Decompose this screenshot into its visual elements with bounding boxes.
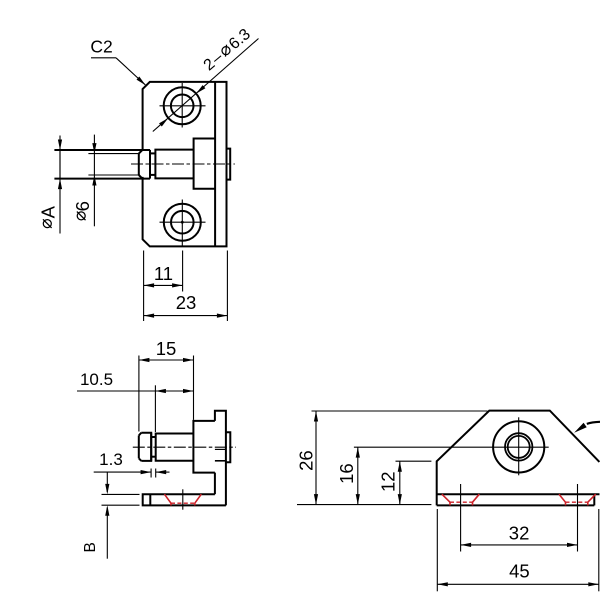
dimension 23 line (144, 315, 228, 317)
svg-text:12: 12 (377, 471, 398, 492)
dimension 15 line (139, 359, 194, 361)
front view: base top line (437, 493, 600, 495)
dimension diaA line (59, 136, 61, 234)
dimension 12 line (399, 461, 401, 504)
svg-text:C2: C2 (90, 37, 112, 57)
top view: rear tab (227, 149, 231, 180)
svg-text:A: A (37, 205, 58, 218)
side view: base plate (143, 494, 226, 505)
front view: base right end (593, 494, 595, 505)
label 2-dia6.3 text (201, 26, 254, 75)
front view: left countersink cone red (442, 494, 450, 502)
top view: mounting plate outline (143, 82, 227, 247)
dimension 23 extension line (226, 251, 228, 322)
label 2-dia6.3 arrows (196, 85, 205, 94)
front view: right countersink center line (577, 484, 579, 552)
top view: hole lower outer circle (164, 204, 201, 241)
dimension diaA text (37, 205, 58, 228)
side view: rear tab (226, 432, 230, 462)
dimension 10.5 extension line (154, 385, 156, 432)
dimension 1.3 line (94, 471, 151, 473)
side view: base inner edge (149, 494, 151, 505)
top view: thread root lines (88, 153, 138, 155)
front view: left countersink bore red (449, 502, 451, 505)
label 2-dia6.3 leader line (153, 39, 259, 132)
svg-text:23: 23 (176, 292, 197, 313)
side view: shaft center line (133, 446, 236, 448)
side view: countersink bottom red dashed (171, 502, 195, 504)
top view: lower hole crosshair (160, 221, 206, 223)
dimension 12 extension line (396, 460, 432, 462)
top view: piston shaft (155, 150, 193, 179)
svg-text:11: 11 (154, 263, 173, 284)
top view: plate inner edge line (214, 82, 216, 247)
dimension 11 extension lines (143, 251, 145, 322)
dimension B line (106, 472, 108, 492)
front view: hole inner circle (508, 436, 530, 458)
side view: boss block (193, 421, 215, 473)
side view: L-bracket flange outline (215, 411, 226, 506)
top view: hole lower inner circle (171, 211, 194, 234)
top view: upper hole crosshair (160, 105, 206, 107)
dimension 16 text (336, 463, 357, 484)
svg-text:1.3: 1.3 (99, 450, 123, 469)
front view: chamfer leader arrow (587, 422, 600, 424)
dimension dia6 text (72, 201, 93, 220)
dimension 45 line (437, 583, 599, 585)
dimension 26 text (296, 450, 317, 471)
svg-text:10.5: 10.5 (80, 370, 113, 389)
front view: right countersink cone red (559, 494, 566, 502)
side view: countersink center line (182, 489, 184, 509)
side view: shaft neck groove (151, 436, 156, 438)
dimension 16 line (357, 447, 359, 504)
front view: hole middle circle (505, 433, 532, 460)
front view: bracket body outline (437, 411, 600, 506)
top view: threaded rod crest lines (54, 149, 150, 151)
svg-text:26: 26 (296, 450, 317, 471)
side view: countersink bore red (170, 503, 172, 505)
top view: boss block (194, 139, 216, 189)
dimension 15 extension lines (138, 356, 140, 432)
dimension 11 line (144, 284, 183, 286)
front view: base bottom line (437, 504, 595, 506)
svg-text:45: 45 (509, 561, 530, 582)
top view: shaft neck groove (150, 152, 155, 154)
dimension B text (82, 542, 99, 552)
dimension 10.5 line (77, 390, 194, 392)
dimension 26 extension lines (312, 410, 488, 412)
dimension dia6 line (93, 135, 95, 227)
dimension 26 line (315, 411, 317, 505)
side view: flange left edge lower (214, 473, 216, 495)
side view: piston shaft (156, 434, 194, 461)
dimension 32 line (461, 544, 578, 546)
svg-text:32: 32 (509, 523, 530, 544)
side view: rod collar nut (141, 433, 151, 461)
front view: left countersink bottom red dashed (450, 501, 473, 503)
top view: hole upper inner circle (171, 95, 194, 118)
side view: flange hole edge lines (215, 448, 226, 450)
top view: rod end face (59, 150, 61, 179)
top view: thread runout (138, 154, 140, 175)
top view: rod collar shoulder (149, 150, 151, 179)
front view: hole outer circle (493, 421, 544, 472)
dimension 1.3 tick lines (150, 469, 152, 478)
svg-text:B: B (82, 542, 99, 552)
svg-text:6: 6 (72, 201, 93, 211)
top view: hole upper outer circle (164, 87, 201, 124)
svg-text:15: 15 (156, 338, 177, 359)
front view: right countersink bottom red dashed (566, 501, 588, 503)
front view: right countersink bore red (565, 502, 567, 505)
side view: countersink cone red (164, 494, 171, 503)
top view: shaft center line (131, 163, 235, 165)
label C2 leader (91, 57, 116, 59)
front view: hole crosshair (354, 446, 549, 448)
dimension 12 text (377, 471, 398, 492)
svg-text:16: 16 (336, 463, 357, 484)
dimension B extension lines (102, 493, 140, 495)
front view: left countersink center line (460, 484, 462, 552)
dimension 45 extension lines (436, 509, 438, 591)
